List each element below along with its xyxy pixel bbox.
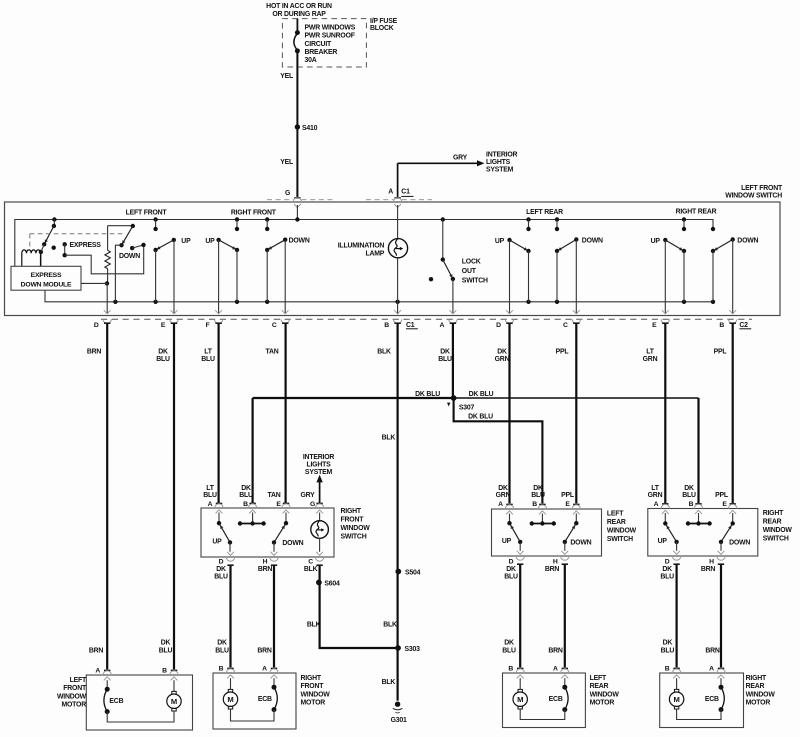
svg-text:E: E (276, 501, 281, 508)
svg-text:BLK: BLK (377, 349, 391, 356)
svg-text:LIGHTS: LIGHTS (306, 462, 331, 469)
wire BRN left rear switch H to motor A (564, 565, 566, 668)
bus junction (682, 217, 686, 221)
resistor (107, 226, 109, 251)
wire DK BLU right front switch D to motor B (229, 566, 231, 668)
wire to ground bus (266, 250, 268, 302)
svg-text:RIGHT: RIGHT (746, 675, 767, 682)
svg-text:LT: LT (204, 349, 212, 356)
ground bus junction (526, 300, 530, 304)
relay contact stub (53, 220, 55, 226)
svg-text:MOTOR: MOTOR (301, 700, 326, 707)
wire DK BLU feed to left rear switch B (454, 398, 543, 503)
svg-text:EXPRESS: EXPRESS (31, 272, 62, 279)
svg-text:SWITCH: SWITCH (462, 278, 488, 285)
connector bump G top (293, 198, 301, 202)
express down aux contact (130, 246, 134, 250)
svg-text:DK: DK (217, 640, 227, 647)
circuit breaker ECB (273, 678, 275, 687)
left rear DOWN switch contact (556, 220, 558, 230)
svg-text:WINDOW: WINDOW (746, 691, 776, 698)
connector entry B (695, 503, 701, 505)
right rear window motor box (660, 673, 744, 728)
svg-text:WINDOW: WINDOW (301, 691, 331, 698)
svg-text:REAR: REAR (607, 519, 626, 526)
left front window motor box (86, 675, 192, 730)
ground bus junction (395, 300, 399, 304)
wire DK BLU (A to splice S307) (452, 323, 454, 398)
svg-text:DOWN: DOWN (289, 238, 310, 245)
svg-text:D: D (94, 322, 99, 329)
splice S604 (316, 580, 322, 586)
svg-text:MOTOR: MOTOR (61, 702, 86, 709)
wire BRN right front switch H to motor A (273, 566, 275, 668)
svg-text:BRN: BRN (258, 566, 273, 573)
motor M (676, 678, 678, 689)
svg-text:LEFT: LEFT (590, 675, 607, 682)
wire stub into fuse block (296, 19, 298, 31)
svg-text:A: A (709, 666, 714, 673)
svg-text:SYSTEM: SYSTEM (486, 166, 514, 173)
svg-text:S303: S303 (405, 646, 421, 653)
svg-text:FRONT: FRONT (301, 683, 325, 690)
right front switch illumination lamp (319, 513, 321, 522)
connector entry B (227, 668, 233, 670)
svg-text:DK: DK (663, 640, 673, 647)
svg-text:A: A (95, 668, 100, 675)
svg-text:CIRCUIT: CIRCUIT (305, 41, 333, 48)
wire G entry to bus (296, 205, 298, 220)
ground bus junction (555, 300, 559, 304)
left rear switch UP (509, 514, 511, 524)
circuit breaker ECB (106, 680, 108, 689)
svg-text:LT: LT (206, 485, 214, 492)
right front DOWN switch blade (267, 240, 285, 250)
svg-text:UP: UP (502, 538, 512, 545)
svg-text:BLU: BLU (682, 492, 696, 499)
relay switch blade (44, 226, 54, 244)
right rear UP switch contact (683, 220, 685, 230)
right rear UP switch blade (665, 240, 684, 251)
svg-text:INTERIOR: INTERIOR (303, 454, 335, 461)
svg-text:DK: DK (497, 349, 507, 356)
wire up pivot to terminal D (509, 240, 511, 313)
svg-text:WINDOW: WINDOW (341, 525, 371, 532)
right front switch common bar (252, 513, 254, 524)
svg-text:DK: DK (533, 485, 543, 492)
wire express switch to down contact loop (65, 245, 144, 274)
svg-text:BRN: BRN (545, 566, 560, 573)
left rear window motor box (503, 673, 586, 728)
svg-text:DK: DK (498, 485, 508, 492)
svg-text:G301: G301 (391, 717, 407, 724)
svg-text:GRN: GRN (648, 492, 663, 499)
svg-text:YEL: YEL (280, 73, 293, 80)
svg-text:BRN: BRN (87, 349, 102, 356)
wire LT GRN (E to right rear switch A) (664, 323, 666, 503)
svg-text:PPL: PPL (715, 492, 728, 499)
wire BLK (B to ground G301) (397, 323, 399, 700)
svg-text:DOWN: DOWN (570, 539, 591, 546)
svg-text:A: A (498, 501, 503, 508)
connector exit pin C (573, 310, 580, 314)
connector exit D (673, 551, 680, 555)
connector entry B (171, 670, 177, 672)
wire to ground bus (236, 250, 238, 302)
svg-text:GRN: GRN (495, 356, 510, 363)
right front switch UP (218, 513, 220, 524)
connector exit pin C (282, 310, 289, 314)
svg-text:MOTOR: MOTOR (590, 700, 615, 707)
svg-text:BLK: BLK (304, 566, 318, 573)
svg-text:PWR SUNROOF: PWR SUNROOF (305, 33, 355, 40)
svg-text:DK: DK (440, 349, 450, 356)
svg-text:LEFT: LEFT (607, 511, 624, 518)
svg-text:REAR: REAR (763, 519, 782, 526)
wire BRN (D to left front motor A) (106, 323, 108, 669)
connector dashed line (C1/C2) (101, 318, 752, 320)
svg-text:LAMP: LAMP (365, 250, 384, 257)
svg-text:LEFT: LEFT (70, 677, 87, 684)
connector entry B (539, 504, 545, 506)
ground bus junction (153, 300, 157, 304)
svg-text:WINDOW SWITCH: WINDOW SWITCH (725, 193, 782, 200)
connector entry B (249, 503, 255, 505)
svg-text:B: B (384, 322, 389, 329)
svg-text:B: B (719, 322, 724, 329)
svg-text:LEFT FRONT: LEFT FRONT (741, 185, 783, 192)
svg-text:SYSTEM: SYSTEM (305, 469, 333, 476)
wire DK BLU (E to left front motor B) (173, 323, 175, 669)
svg-text:DOWN: DOWN (119, 253, 140, 260)
svg-text:B: B (689, 501, 694, 508)
wire module output (81, 282, 107, 284)
svg-text:G: G (310, 501, 315, 508)
connector entry A (216, 503, 222, 505)
svg-text:DK BLU: DK BLU (415, 391, 440, 398)
svg-text:DK: DK (161, 640, 171, 647)
bus junction (295, 217, 299, 221)
svg-text:EXPRESS: EXPRESS (70, 242, 102, 249)
connector exit H (271, 552, 278, 556)
svg-text:DOWN MODULE: DOWN MODULE (21, 282, 72, 289)
svg-text:UP: UP (651, 238, 661, 245)
express switch (62, 242, 66, 246)
svg-text:D: D (496, 322, 501, 329)
right rear switch common bar (698, 513, 700, 524)
ground bus junction (235, 300, 239, 304)
left front UP switch contact (155, 220, 157, 229)
bus junction (153, 217, 157, 221)
wire DK GRN (D to left rear switch A) (508, 323, 510, 503)
right front UP switch blade (219, 240, 237, 250)
wire to ground bus (712, 251, 714, 302)
svg-text:C1: C1 (406, 322, 415, 329)
svg-text:C: C (563, 322, 568, 329)
svg-text:LEFT FRONT: LEFT FRONT (126, 209, 168, 216)
connector exit H (718, 551, 725, 555)
svg-text:D: D (219, 558, 224, 565)
wire TAN (C to right front switch E) (285, 323, 287, 503)
svg-text:B: B (162, 668, 167, 675)
connector entry E (730, 503, 736, 505)
svg-text:FRONT: FRONT (341, 517, 365, 524)
motor M (519, 678, 521, 689)
svg-text:DK: DK (158, 349, 168, 356)
connector exit pin D (506, 310, 513, 314)
svg-text:M: M (674, 695, 680, 704)
svg-text:DOWN: DOWN (737, 237, 758, 244)
svg-text:WINDOW: WINDOW (57, 693, 87, 700)
svg-text:F: F (206, 322, 210, 329)
svg-text:S307: S307 (459, 404, 475, 411)
svg-text:B: B (508, 666, 513, 673)
svg-text:DK BLU: DK BLU (468, 414, 493, 421)
svg-text:DK: DK (504, 640, 514, 647)
wire up contact to ground bus (155, 250, 157, 302)
express down module box (11, 266, 81, 290)
wire motor to breaker (107, 711, 174, 722)
svg-text:C2: C2 (739, 322, 748, 329)
svg-text:A: A (262, 666, 267, 673)
lock out switch (442, 220, 444, 260)
wire to ground bus (556, 251, 558, 302)
svg-text:LT: LT (651, 485, 659, 492)
svg-text:H: H (553, 558, 558, 565)
svg-text:BLU: BLU (214, 573, 228, 580)
junction module output / resistor (105, 281, 109, 285)
connector entry A (562, 668, 568, 670)
connector exit pin A (450, 310, 457, 314)
svg-text:BLU: BLU (502, 647, 516, 654)
svg-text:DOWN: DOWN (582, 237, 603, 244)
left rear switch DOWN (575, 514, 577, 524)
wire resistor top to down switch contact (108, 225, 133, 227)
bus junction (555, 217, 559, 221)
right rear window switch box (648, 509, 758, 557)
svg-text:B: B (665, 666, 670, 673)
svg-text:BLU: BLU (159, 647, 173, 654)
svg-text:H: H (709, 558, 714, 565)
svg-text:PWR WINDOWS: PWR WINDOWS (305, 24, 356, 31)
connector exit pin E (662, 310, 669, 314)
connector entry E (573, 504, 579, 506)
ground bus junction (711, 300, 715, 304)
svg-text:BLU: BLU (203, 492, 217, 499)
svg-text:BLU: BLU (239, 492, 253, 499)
ground G301 (395, 702, 400, 707)
wire LT BLU (F to right front switch A) (218, 323, 220, 503)
wire up pivot to terminal E (173, 240, 175, 313)
connector entry B (673, 668, 679, 670)
svg-text:RIGHT FRONT: RIGHT FRONT (231, 209, 277, 216)
svg-text:B: B (219, 666, 224, 673)
ground bus junction (265, 300, 269, 304)
splice S307 (451, 395, 457, 401)
ground bus junction (113, 300, 117, 304)
connector exit pin E (171, 310, 178, 314)
wire DK BLU feed to right rear switch B (454, 397, 699, 399)
wire down pivot to ground bus (115, 245, 121, 302)
bus junction (235, 217, 239, 221)
svg-text:ECB: ECB (109, 698, 123, 705)
connector exit pin B (394, 310, 401, 314)
wire BRN right rear switch H to motor A (720, 565, 722, 668)
right front window motor box (213, 673, 296, 729)
connector exit D (517, 551, 524, 555)
svg-text:UP: UP (181, 238, 191, 245)
svg-text:TAN: TAN (265, 349, 278, 356)
internal ground bus (bottom) (45, 290, 713, 302)
svg-text:D: D (509, 558, 514, 565)
splice S303 (395, 645, 401, 651)
illumination lamp (397, 205, 399, 239)
wire motor to breaker (520, 709, 565, 720)
svg-text:FRONT: FRONT (63, 685, 87, 692)
circuit breaker ECB (720, 678, 722, 687)
wire PPL (B to right rear switch E) (732, 323, 734, 503)
svg-text:ECB: ECB (258, 696, 272, 703)
svg-text:LIGHTS: LIGHTS (486, 159, 511, 166)
right front switch DOWN (285, 513, 287, 524)
svg-text:RIGHT: RIGHT (301, 675, 322, 682)
splice S504 (395, 569, 401, 575)
svg-text:OUT: OUT (462, 268, 477, 275)
svg-text:B: B (243, 501, 248, 508)
wire DK BLU left rear switch D to motor B (519, 565, 521, 668)
bus junction (526, 217, 530, 221)
svg-text:A: A (208, 501, 213, 508)
svg-text:C: C (272, 322, 277, 329)
svg-text:RIGHT: RIGHT (341, 508, 362, 515)
svg-text:ILLUMINATION: ILLUMINATION (338, 243, 385, 250)
svg-text:BLK: BLK (382, 679, 396, 686)
relay aux contact (52, 246, 56, 250)
left rear window switch box (492, 509, 602, 556)
mechanical linkage (dashed) (30, 233, 124, 235)
svg-text:C: C (308, 558, 313, 565)
wire up pivot to terminal F (218, 240, 220, 313)
svg-text:M: M (171, 697, 177, 706)
svg-text:INTERIOR: INTERIOR (486, 152, 518, 159)
wire to ground bus (528, 251, 530, 302)
svg-text:ECB: ECB (549, 696, 563, 703)
svg-text:G: G (285, 190, 290, 197)
svg-text:YEL: YEL (280, 159, 293, 166)
svg-text:UP: UP (205, 238, 215, 245)
svg-text:BRN: BRN (89, 647, 104, 654)
wire motor to breaker (677, 709, 721, 720)
svg-text:E: E (722, 501, 727, 508)
svg-text:S410: S410 (302, 125, 318, 132)
svg-text:GRN: GRN (496, 492, 511, 499)
svg-text:C1: C1 (401, 189, 410, 196)
svg-text:GRY: GRY (453, 155, 468, 162)
svg-text:SWITCH: SWITCH (341, 534, 367, 541)
svg-text:BLU: BLU (661, 647, 675, 654)
splice S410 (295, 124, 300, 129)
connector entry A (718, 668, 724, 670)
svg-text:DOWN: DOWN (729, 539, 750, 546)
svg-text:BLOCK: BLOCK (370, 25, 394, 32)
left rear DOWN switch blade (557, 240, 576, 252)
ground bus junction (682, 300, 686, 304)
svg-text:BLK: BLK (383, 622, 397, 629)
svg-text:LEFT REAR: LEFT REAR (526, 209, 563, 216)
wire up pivot to terminal E (664, 240, 666, 313)
right front DOWN switch contact (266, 220, 268, 229)
wire lockout to terminal A (452, 279, 454, 313)
wire down pivot to terminal C (284, 240, 286, 314)
coil (express down relay winding) (22, 250, 41, 253)
svg-text:DK BLU: DK BLU (469, 391, 494, 398)
wire motor to breaker (231, 709, 275, 721)
svg-text:UP: UP (658, 538, 668, 545)
wire GRY to interior lights system (319, 482, 321, 504)
connector entry B (517, 668, 523, 670)
svg-text:DK: DK (684, 485, 694, 492)
connector entry A (271, 668, 277, 670)
svg-text:RIGHT: RIGHT (763, 510, 784, 517)
svg-text:B: B (532, 501, 537, 508)
svg-text:REAR: REAR (590, 683, 609, 690)
left front DOWN switch contact (131, 224, 135, 228)
svg-text:M: M (227, 695, 233, 704)
svg-text:BLU: BLU (156, 356, 170, 363)
svg-text:PPL: PPL (714, 349, 727, 356)
svg-text:A: A (553, 666, 558, 673)
svg-text:LOCK: LOCK (462, 259, 481, 266)
svg-text:DK: DK (241, 485, 251, 492)
svg-text:DK: DK (216, 566, 226, 573)
svg-text:A: A (388, 188, 393, 195)
svg-text:RIGHT REAR: RIGHT REAR (676, 208, 717, 215)
left front UP switch blade (156, 240, 174, 250)
internal supply bus (15, 220, 713, 267)
svg-text:WINDOW: WINDOW (607, 528, 637, 535)
left front window switch (main box) (5, 202, 781, 316)
svg-text:DK: DK (662, 566, 672, 573)
connector entry A (506, 504, 512, 506)
right rear DOWN switch contact (711, 227, 715, 231)
svg-text:S604: S604 (324, 581, 340, 588)
bus junction (265, 217, 269, 221)
svg-text:BRN: BRN (257, 647, 272, 654)
wire to ground bus (683, 251, 685, 302)
connector exit H (561, 551, 568, 555)
svg-text:E: E (652, 322, 657, 329)
svg-text:BLK: BLK (382, 435, 396, 442)
svg-text:GRY: GRY (300, 492, 315, 499)
right rear switch DOWN (732, 513, 734, 523)
bus junction (52, 217, 56, 221)
motor M (173, 680, 175, 691)
connector entry A (104, 670, 110, 672)
wire PPL (C to left rear switch E) (575, 323, 577, 503)
svg-text:E: E (565, 501, 570, 508)
wire B exit from ground bus (397, 302, 399, 314)
svg-text:BLU: BLU (531, 492, 545, 499)
svg-text:UP: UP (495, 238, 505, 245)
svg-text:BRN: BRN (548, 647, 563, 654)
svg-text:A: A (440, 322, 445, 329)
svg-text:ECB: ECB (705, 696, 719, 703)
svg-text:BRN: BRN (705, 647, 720, 654)
svg-text:BLU: BLU (201, 356, 215, 363)
svg-text:BLU: BLU (438, 356, 452, 363)
circuit breaker PWR WINDOWS 30A (295, 30, 300, 35)
left rear UP switch contact (528, 220, 530, 230)
